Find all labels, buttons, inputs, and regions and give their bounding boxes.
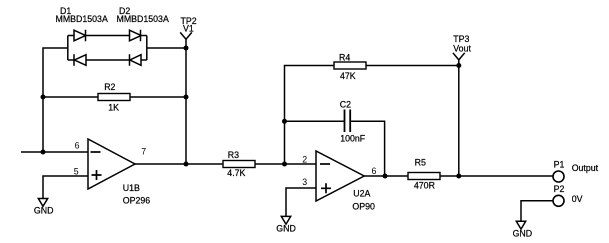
- wire diode bridge top branch: [68, 35, 147, 37]
- svg-text:C2: C2: [340, 99, 351, 109]
- svg-text:MMBD1503A: MMBD1503A: [56, 14, 108, 24]
- wire diode bridge to TP2 node: [147, 47, 186, 49]
- svg-text:470R: 470R: [414, 180, 435, 190]
- wire left vertical: [43, 48, 68, 152]
- wire diode bridge left side: [67, 36, 69, 61]
- node junction B: [41, 150, 46, 155]
- svg-text:TP3: TP3: [453, 34, 469, 44]
- op-amp U2A: [316, 151, 364, 201]
- svg-text:R3: R3: [228, 150, 239, 160]
- op-amp U1B: [88, 139, 135, 189]
- wire C2 branch: [285, 121, 385, 176]
- svg-text:7: 7: [141, 147, 146, 157]
- svg-text:Output: Output: [572, 163, 599, 173]
- node junction E: [282, 119, 287, 124]
- svg-text:0V: 0V: [572, 194, 583, 204]
- resistor R2: [98, 94, 130, 101]
- wire diode bridge bottom branch: [68, 59, 147, 61]
- svg-text:5: 5: [74, 166, 79, 176]
- node junction H: [456, 174, 461, 179]
- svg-text:6: 6: [75, 140, 80, 150]
- svg-text:100nF: 100nF: [340, 134, 366, 144]
- node junction TP3: [456, 63, 461, 68]
- diode D2: [130, 30, 142, 66]
- test point TP3: [453, 53, 465, 60]
- node junction C: [184, 95, 189, 100]
- connector P2: [553, 195, 564, 206]
- svg-text:V1: V1: [183, 23, 194, 33]
- svg-text:R5: R5: [415, 158, 426, 168]
- svg-text:6: 6: [372, 166, 377, 176]
- capacitor C2: [345, 110, 351, 133]
- wire input stub: [21, 151, 88, 153]
- wire P2 to ground: [521, 201, 553, 222]
- wire R2 leads: [43, 96, 186, 98]
- svg-text:P1: P1: [554, 160, 565, 170]
- node junction TP2: [184, 46, 189, 51]
- node junction D: [184, 162, 189, 167]
- svg-text:GND: GND: [34, 206, 54, 216]
- resistor R4: [334, 62, 366, 69]
- svg-text:R2: R2: [104, 82, 115, 92]
- wire feedback left vertical: [285, 66, 335, 165]
- wire right vertical: [185, 39, 187, 164]
- ground U2A: [281, 216, 290, 224]
- wire U2A plus input to ground: [286, 188, 316, 216]
- resistor R5: [408, 173, 440, 180]
- wire U2A output: [364, 175, 408, 177]
- svg-text:4.7K: 4.7K: [227, 168, 245, 178]
- svg-text:U2A: U2A: [353, 189, 370, 199]
- svg-text:2: 2: [302, 155, 307, 165]
- resistor R3: [223, 161, 255, 168]
- wire TP3 vertical: [458, 60, 460, 176]
- connector P1: [553, 171, 564, 182]
- svg-text:1K: 1K: [108, 102, 119, 112]
- wire U1B output: [135, 163, 223, 165]
- svg-text:MMBD1503A: MMBD1503A: [117, 14, 169, 24]
- svg-text:GND: GND: [276, 224, 296, 234]
- svg-text:3: 3: [302, 177, 307, 187]
- svg-text:OP90: OP90: [352, 202, 375, 212]
- svg-text:R4: R4: [339, 52, 350, 62]
- svg-text:Vout: Vout: [453, 43, 471, 53]
- ground U1B: [38, 199, 47, 207]
- wire R4 to TP3 node: [366, 65, 459, 67]
- node junction G: [383, 174, 388, 179]
- svg-text:GND: GND: [513, 229, 533, 239]
- ground P2: [516, 221, 525, 229]
- wire diode bridge right side: [146, 36, 148, 61]
- svg-text:P2: P2: [554, 184, 565, 194]
- node junction A: [41, 95, 46, 100]
- node junction F: [282, 162, 287, 167]
- wire R5 to P1: [440, 175, 553, 177]
- test point TP2: [180, 32, 192, 39]
- svg-text:47K: 47K: [340, 71, 356, 81]
- svg-text:OP296: OP296: [123, 196, 150, 206]
- wire U1B plus input to ground: [43, 176, 88, 199]
- diode D1: [74, 30, 86, 66]
- wire R3 to U2A: [255, 163, 316, 165]
- svg-text:U1B: U1B: [123, 183, 140, 193]
